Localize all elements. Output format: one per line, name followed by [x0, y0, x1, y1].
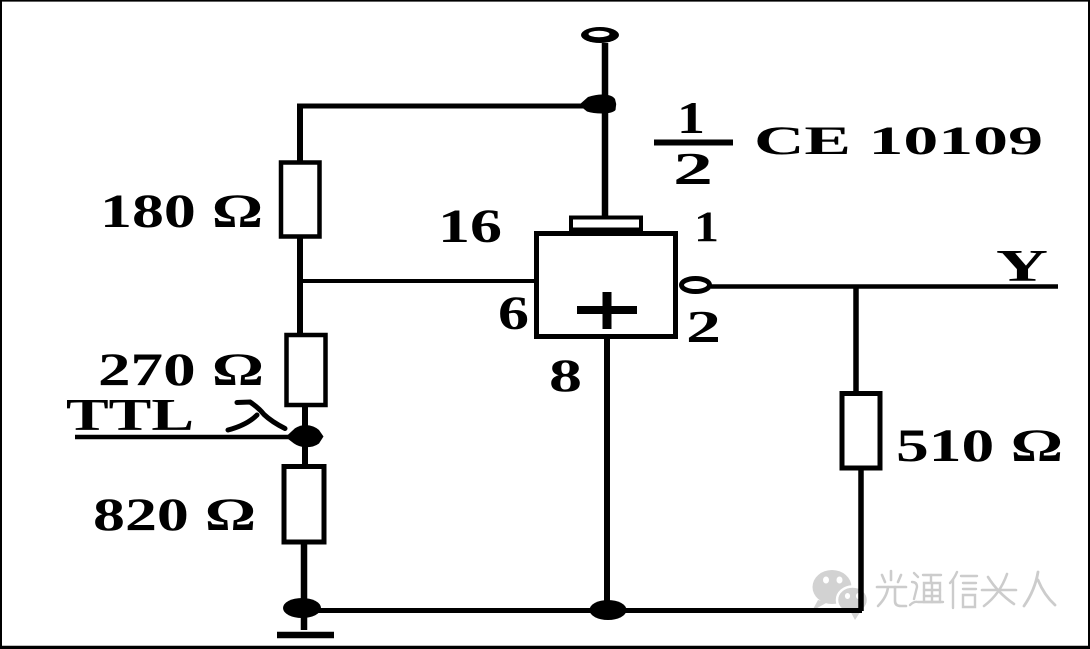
svg-text:8: 8 — [549, 350, 582, 402]
watermark text xin — [950, 572, 977, 608]
junction TTL node — [286, 425, 324, 447]
svg-text:1: 1 — [677, 92, 705, 143]
wire branch down to R4 — [853, 286, 859, 395]
wire bottom bus — [303, 608, 862, 613]
ground — [277, 632, 334, 639]
resistor R2 270ohm — [287, 335, 326, 405]
junction top — [579, 95, 616, 114]
glyph ru (CJK enter) — [228, 402, 285, 430]
watermark text guang — [877, 571, 906, 606]
wire R4 down to bottom bus — [858, 467, 864, 611]
svg-text:CE 10109: CE 10109 — [754, 118, 1043, 163]
label fraction bar — [654, 140, 733, 146]
svg-text:820 Ω: 820 Ω — [93, 489, 256, 541]
svg-text:16: 16 — [438, 200, 502, 253]
svg-text:6: 6 — [498, 287, 529, 340]
watermark wechat icon — [812, 570, 868, 620]
wire R2 to R3 — [302, 404, 308, 468]
svg-text:2: 2 — [686, 301, 721, 352]
wire terminal to IC tab — [602, 43, 609, 218]
plus symbol — [577, 292, 637, 329]
resistor R3 820ohm — [284, 467, 324, 543]
junction ground node — [283, 598, 321, 618]
wire output Y — [711, 284, 1058, 289]
wire R3 to ground node — [301, 541, 308, 630]
svg-text:TTL: TTL — [66, 390, 194, 440]
svg-text:270 Ω: 270 Ω — [98, 344, 264, 396]
svg-text:510 Ω: 510 Ω — [896, 420, 1063, 472]
svg-text:1: 1 — [694, 204, 719, 251]
IC U1 top tab — [571, 218, 641, 230]
wire top horizontal — [298, 104, 600, 109]
output bubble — [682, 279, 710, 292]
resistor R4 510ohm — [842, 394, 880, 469]
border frame — [0, 0, 1090, 2]
terminal VCC top — [581, 27, 619, 43]
junction bottom middle — [590, 600, 627, 620]
op-amp U1 box — [537, 234, 676, 337]
wire R1 to R2 — [297, 236, 303, 336]
wire TTL input — [75, 435, 298, 440]
watermark text ren — [1024, 572, 1055, 606]
svg-text:Y: Y — [996, 241, 1048, 291]
svg-text:180 Ω: 180 Ω — [100, 185, 263, 238]
svg-text:2: 2 — [673, 143, 713, 194]
wire bias to IC pin6 — [300, 279, 537, 283]
wire IC pin8 down — [604, 339, 610, 606]
wire left down to R1 — [297, 104, 303, 165]
watermark text tong — [910, 573, 943, 605]
resistor R1 180ohm — [281, 163, 320, 237]
watermark text nv — [982, 574, 1016, 606]
